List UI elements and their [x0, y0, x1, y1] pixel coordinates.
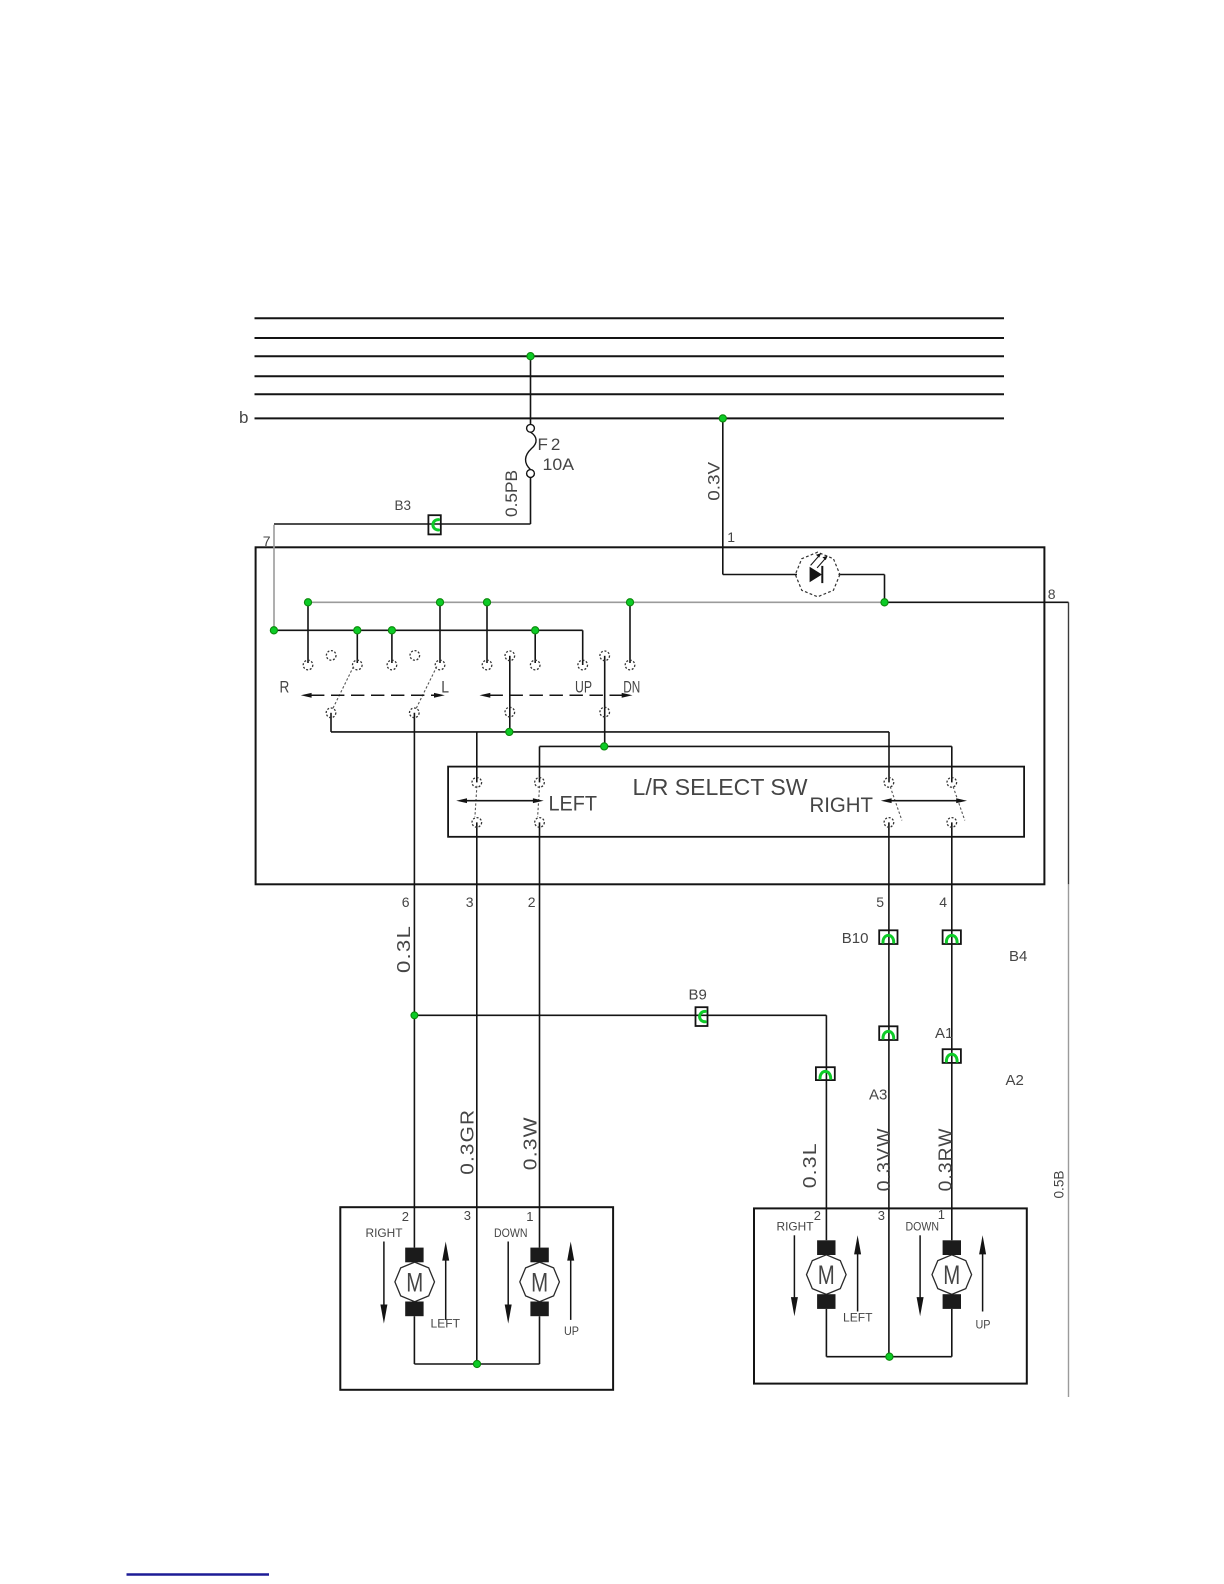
svg-text:0.5B: 0.5B — [1052, 1171, 1067, 1199]
svg-text:7: 7 — [263, 533, 271, 549]
svg-text:UP: UP — [575, 678, 592, 697]
svg-text:0.3L: 0.3L — [394, 925, 414, 973]
svg-text:RIGHT: RIGHT — [366, 1226, 404, 1240]
svg-text:b: b — [239, 408, 248, 427]
svg-text:F2: F2 — [538, 435, 564, 454]
svg-text:0.3RW: 0.3RW — [935, 1127, 955, 1191]
svg-text:0.5PB: 0.5PB — [502, 470, 521, 517]
svg-text:B10: B10 — [842, 930, 869, 947]
svg-text:LEFT: LEFT — [843, 1310, 873, 1324]
svg-text:RIGHT: RIGHT — [810, 794, 874, 817]
svg-text:0.3W: 0.3W — [521, 1116, 541, 1170]
svg-text:A2: A2 — [1006, 1072, 1024, 1089]
svg-text:3: 3 — [878, 1208, 885, 1223]
svg-text:UP: UP — [564, 1324, 579, 1338]
svg-text:M: M — [531, 1268, 548, 1298]
svg-text:LEFT: LEFT — [549, 793, 598, 816]
svg-text:8: 8 — [1048, 586, 1056, 602]
svg-text:RIGHT: RIGHT — [777, 1220, 815, 1234]
svg-text:2: 2 — [528, 894, 536, 910]
svg-text:2: 2 — [814, 1208, 821, 1223]
svg-text:0.3GR: 0.3GR — [457, 1109, 477, 1175]
svg-text:B9: B9 — [689, 987, 707, 1004]
svg-text:0.3VW: 0.3VW — [874, 1127, 894, 1191]
svg-text:3: 3 — [466, 894, 474, 910]
svg-text:5: 5 — [876, 894, 884, 910]
svg-text:M: M — [943, 1260, 960, 1290]
svg-text:2: 2 — [402, 1209, 409, 1224]
svg-text:LEFT: LEFT — [431, 1317, 461, 1331]
svg-text:A3: A3 — [869, 1087, 887, 1104]
svg-text:1: 1 — [526, 1209, 533, 1224]
svg-text:L/R SELECT SW: L/R SELECT SW — [633, 774, 808, 800]
svg-text:M: M — [818, 1260, 835, 1290]
svg-text:1: 1 — [727, 529, 735, 545]
svg-text:DOWN: DOWN — [494, 1226, 528, 1240]
svg-text:R: R — [280, 678, 290, 697]
svg-text:0.3L: 0.3L — [800, 1142, 820, 1188]
svg-text:L: L — [441, 678, 449, 697]
svg-text:A1: A1 — [935, 1025, 953, 1042]
svg-text:6: 6 — [402, 894, 410, 910]
svg-text:DOWN: DOWN — [906, 1220, 940, 1234]
svg-text:M: M — [406, 1268, 423, 1298]
svg-text:3: 3 — [464, 1208, 471, 1223]
svg-text:4: 4 — [939, 894, 947, 910]
svg-text:UP: UP — [976, 1318, 991, 1332]
svg-text:DN: DN — [623, 678, 640, 697]
svg-text:10A: 10A — [543, 455, 575, 474]
svg-text:B4: B4 — [1009, 948, 1027, 965]
svg-text:B3: B3 — [395, 498, 412, 513]
svg-text:0.3V: 0.3V — [705, 461, 724, 501]
